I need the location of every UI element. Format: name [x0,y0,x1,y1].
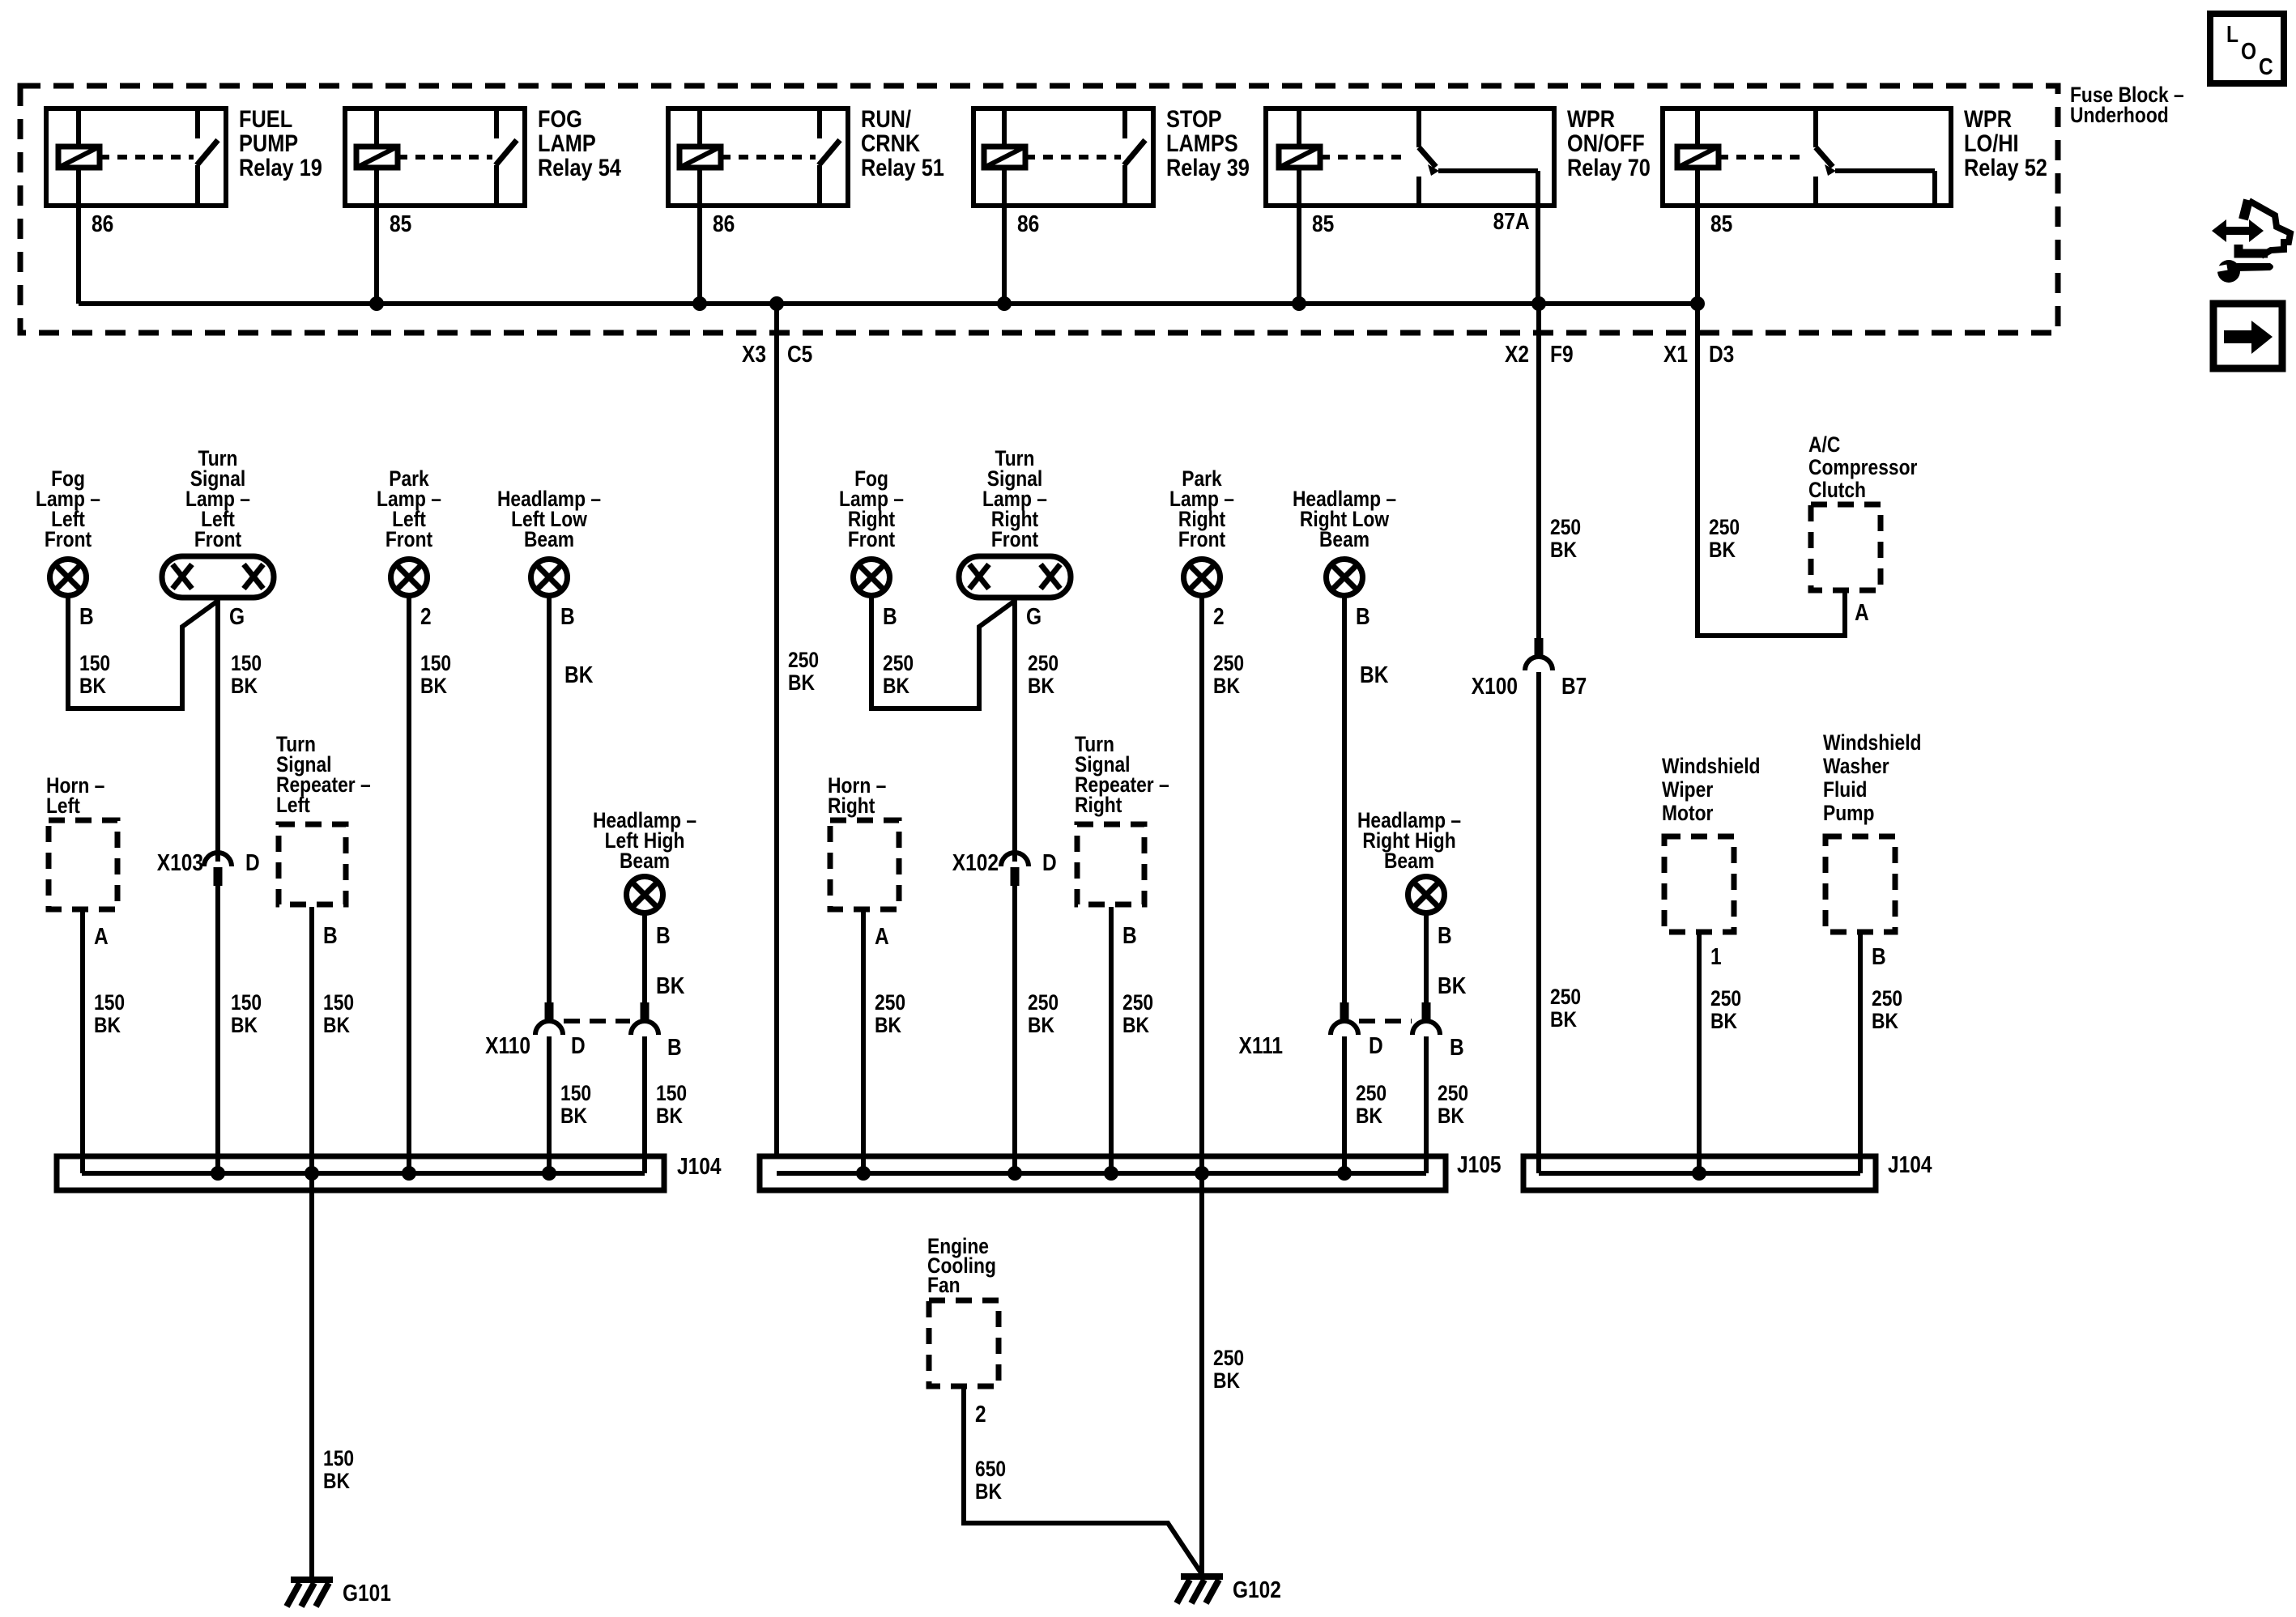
headlamp right high beam bulb [1408,877,1445,913]
wire horn left to J104 [80,912,85,1173]
svg-text:FOG: FOG [538,106,582,133]
svg-text:Motor: Motor [1662,801,1714,825]
svg-text:BK: BK [1550,1007,1577,1032]
svg-text:PUMP: PUMP [239,130,298,157]
svg-text:250: 250 [875,990,905,1015]
wire high beam right down [1424,914,1429,1002]
wire low beam right to J105 [1342,1036,1347,1173]
park lamp left front bulb [391,560,428,596]
label J104 left [677,1154,722,1180]
svg-text:Front: Front [991,527,1038,551]
svg-text:C5: C5 [787,342,812,368]
svg-text:G: G [1026,604,1042,630]
svg-text:RUN/: RUN/ [861,106,912,133]
svg-text:BK: BK [656,1104,683,1128]
pin 1 (wiper motor) [1710,944,1722,970]
connector label X3 C5 [742,342,812,368]
splice X111 labels [1239,1033,1464,1061]
turn signal lamp right front symbol [959,556,1071,598]
svg-text:BK: BK [560,1104,587,1128]
svg-text:Windshield: Windshield [1662,754,1761,778]
pin A (horn left) [94,924,109,950]
svg-text:85: 85 [1312,211,1334,237]
wire label 250 BK (turn signal right) [1028,651,1059,698]
svg-text:BK: BK [323,1013,350,1037]
svg-text:Beam: Beam [1384,849,1434,873]
splice X103 labels [157,850,260,876]
wire label 150 BK (turn signal left) [231,651,262,698]
svg-text:BK: BK [1028,674,1054,698]
svg-text:X1: X1 [1663,342,1688,368]
svg-text:87A: 87A [1493,209,1530,235]
svg-text:ON/OFF: ON/OFF [1567,130,1645,157]
svg-text:250: 250 [1213,651,1244,675]
svg-text:Washer: Washer [1823,754,1889,778]
svg-text:86: 86 [92,211,113,237]
svg-text:G: G [229,604,245,630]
wire label 150 BK (fog left) [79,651,110,698]
svg-text:Front: Front [1178,527,1225,551]
svg-text:BK: BK [883,674,909,698]
arrow icon box [2213,304,2282,368]
relay 19 FUEL PUMP [46,106,322,304]
wire label 250 BK (low beam right) [1356,1081,1387,1128]
svg-text:Pump: Pump [1823,801,1874,825]
headlamp right high beam label [1357,808,1461,873]
svg-text:BK: BK [1872,1009,1898,1033]
svg-text:Right: Right [1075,793,1122,817]
A/C compressor clutch label [1808,432,1918,502]
svg-text:G101: G101 [343,1581,391,1606]
pin B (fog right) [883,604,897,630]
svg-text:B: B [323,923,338,949]
svg-text:86: 86 [713,211,735,237]
svg-text:D: D [1369,1033,1383,1059]
svg-text:BK: BK [79,674,106,698]
splice X111 dashed link [1359,1019,1412,1023]
pin B (low beam right) [1356,604,1370,630]
svg-text:B: B [1450,1035,1464,1061]
splice X110 labels [485,1033,682,1061]
wire label 150 BK (low beam left) [560,1081,591,1128]
svg-text:B: B [79,604,94,630]
fog lamp right front label [839,466,904,551]
svg-text:B: B [883,604,897,630]
J104 left bus [82,1171,645,1176]
svg-text:2: 2 [975,1402,986,1428]
wire X103 to J104 [215,886,220,1173]
svg-text:BK: BK [975,1479,1002,1504]
wire label BK (high beam right) [1438,973,1466,999]
svg-text:LAMP: LAMP [538,130,596,157]
J105 dots [856,1166,1352,1181]
svg-text:O: O [2241,39,2256,65]
svg-text:BK: BK [231,674,258,698]
wire turn signal left G down [215,600,220,862]
pin B (washer pump) [1872,944,1886,970]
svg-text:250: 250 [1213,1346,1244,1370]
svg-text:BK: BK [788,670,815,695]
wire label 650 BK (fan) [975,1457,1006,1504]
svg-text:Wiper: Wiper [1662,777,1714,802]
svg-text:250: 250 [1028,990,1059,1015]
svg-text:A: A [1855,600,1869,626]
svg-text:BK: BK [564,662,593,688]
svg-text:B: B [656,923,671,949]
svg-text:J104: J104 [677,1154,722,1180]
wire label 250 BK (C5) [788,648,819,695]
svg-text:2: 2 [420,604,432,630]
ground G101 [287,1580,391,1606]
svg-text:Beam: Beam [524,527,574,551]
svg-text:B: B [1872,944,1886,970]
wire label 250 BK (wiper) [1710,986,1741,1033]
svg-text:BK: BK [1213,1368,1240,1393]
windshield wiper motor box [1664,836,1734,932]
wire high beam left to J104 [642,1036,647,1173]
wire label 150 BK (park left) [420,651,451,698]
svg-text:85: 85 [390,211,411,237]
svg-text:BK: BK [420,674,447,698]
pin B (repeater left) [323,923,338,949]
wire label 150 BK (repeater left) [323,990,354,1037]
svg-text:BK: BK [323,1469,350,1493]
pin B (fog left) [79,604,94,630]
svg-text:250: 250 [1028,651,1059,675]
pin G (turn signal right) [1026,604,1042,630]
svg-text:250: 250 [1550,515,1581,539]
svg-text:J104: J104 [1888,1152,1932,1178]
turn signal lamp left front label [185,446,250,551]
headlamp left low beam bulb [531,560,568,596]
svg-text:250: 250 [1710,986,1741,1011]
svg-text:250: 250 [1550,985,1581,1009]
svg-text:Front: Front [848,527,895,551]
pin 2 (park right) [1213,604,1225,630]
fuse block label [2070,83,2184,127]
svg-text:150: 150 [231,651,262,675]
svg-text:150: 150 [420,651,451,675]
svg-text:J105: J105 [1457,1152,1502,1178]
svg-text:Relay 39: Relay 39 [1166,155,1250,181]
svg-text:X2: X2 [1505,342,1529,368]
horn right box [830,820,899,909]
splice X100 [1525,638,1553,670]
svg-text:Beam: Beam [620,849,670,873]
fuse block underhood dashed box [20,86,2058,333]
pin B (high beam left) [656,923,671,949]
wire fog right to turn signal [871,597,1015,709]
wire label 250 BK (D3) [1709,515,1740,562]
wire low beam left down [547,597,552,1002]
park lamp right front label [1169,466,1234,551]
svg-text:650: 650 [975,1457,1006,1481]
turn signal repeater right box [1077,824,1144,904]
junction block J105 [760,1156,1446,1190]
wire washer pump to J104 [1858,934,1863,1173]
splice X102 [1001,853,1029,886]
svg-text:BK: BK [94,1013,121,1037]
park lamp left front label [377,466,441,551]
svg-text:Underhood: Underhood [2070,103,2169,127]
svg-text:Compressor: Compressor [1808,455,1918,479]
windshield washer fluid pump label [1823,730,1922,825]
svg-text:Clutch: Clutch [1808,478,1866,502]
svg-text:BK: BK [1122,1013,1149,1037]
svg-text:X102: X102 [952,850,999,876]
pin G (turn signal left) [229,604,245,630]
headlamp left low beam label [497,487,601,551]
splice X110 dashed link [564,1019,630,1023]
wire label 250 BK (repeater right) [1122,990,1153,1037]
wire high beam right to J105 [1424,1036,1429,1173]
wire X2/F9 drop [1536,304,1541,639]
svg-text:STOP: STOP [1166,106,1222,133]
relay 39 STOP LAMPS [973,106,1250,304]
svg-text:150: 150 [323,1446,354,1470]
engine cooling fan label [927,1234,996,1297]
junction block J104 left [57,1156,664,1190]
svg-text:F9: F9 [1550,342,1574,368]
svg-text:Front: Front [386,527,432,551]
svg-text:Left: Left [46,794,80,818]
svg-text:150: 150 [94,990,125,1015]
splice X111 left half [1331,1002,1358,1035]
junction block J104 right [1523,1156,1876,1190]
relay 70 WPR ON/OFF [1266,106,1651,304]
horn left label [46,773,104,818]
svg-text:L: L [2226,22,2238,48]
engine cooling fan box [929,1300,999,1386]
LOC icon letters [2226,22,2273,80]
svg-text:BK: BK [1356,1104,1382,1128]
svg-text:LAMPS: LAMPS [1166,130,1238,157]
car service icon [2212,200,2290,283]
splice X110 left half [535,1002,563,1035]
svg-text:BK: BK [1710,1009,1737,1033]
windshield washer fluid pump box [1825,836,1895,932]
svg-text:X111: X111 [1239,1033,1284,1059]
svg-text:250: 250 [788,648,819,672]
ground G102 [1177,1577,1281,1603]
svg-text:Fan: Fan [927,1273,961,1297]
wire repeater left to J104 [309,907,314,1173]
wire label 250 BK (high beam right) [1438,1081,1468,1128]
J105 bus [777,1171,1426,1176]
pin 2 (fan) [975,1402,986,1428]
svg-text:FUEL: FUEL [239,106,292,133]
pin B (repeater right) [1122,923,1137,949]
svg-text:A: A [875,924,889,950]
wire label BK (high beam left) [656,973,684,999]
fog lamp left front bulb [50,560,87,596]
svg-text:1: 1 [1710,944,1722,970]
wire X1/D3 drop [1698,304,1845,636]
svg-text:250: 250 [1122,990,1153,1015]
wire park right to J105 and G102 [1199,597,1204,1574]
svg-text:WPR: WPR [1567,106,1615,133]
svg-text:150: 150 [323,990,354,1015]
turn signal repeater right label [1075,732,1169,817]
svg-text:250: 250 [883,651,914,675]
svg-text:BK: BK [1550,538,1577,562]
wire label BK (low beam right) [1360,662,1388,688]
J104 left dots [211,1166,556,1181]
wire label 150 BK (high beam left) [656,1081,687,1128]
relay 51 RUN/CRNK [668,106,944,304]
svg-text:Windshield: Windshield [1823,730,1922,755]
wire wiper motor to J104 [1697,934,1702,1173]
svg-text:Relay 19: Relay 19 [239,155,322,181]
wire X3/C5 drop [774,304,779,1156]
wire label 250 BK (fog right) [883,651,914,698]
svg-text:D3: D3 [1709,342,1734,368]
wire repeater right to J105 [1109,907,1114,1173]
svg-text:BK: BK [1709,538,1736,562]
svg-text:D: D [1042,850,1057,876]
svg-text:Relay 51: Relay 51 [861,155,944,181]
wire label 150 BK (horn left) [94,990,125,1037]
relay 52 WPR LO/HI [1663,106,2047,304]
headlamp right low beam label [1293,487,1396,551]
pin B (high beam right) [1438,923,1452,949]
arrow icon [2224,321,2273,354]
splice X102 labels [952,850,1057,876]
svg-text:BK: BK [231,1013,258,1037]
svg-text:Front: Front [45,527,92,551]
label J104 right [1888,1152,1932,1178]
svg-text:Beam: Beam [1319,527,1370,551]
svg-text:B: B [667,1035,682,1061]
wire label 250 BK (horn right) [875,990,905,1037]
pin B (low beam left) [560,604,575,630]
wire label 250 BK (washer) [1872,986,1902,1033]
svg-text:BK: BK [656,973,684,999]
svg-text:150: 150 [656,1081,687,1105]
fuse block ground bus wire [79,301,1698,306]
pin 2 (park left) [420,604,432,630]
wire park left to J104 [407,597,411,1173]
fog lamp right front bulb [854,560,890,596]
svg-text:BK: BK [1438,973,1466,999]
svg-text:150: 150 [231,990,262,1015]
splice X103 [204,853,232,886]
svg-text:150: 150 [560,1081,591,1105]
svg-text:X3: X3 [742,342,766,368]
headlamp right low beam bulb [1327,560,1363,596]
connector label X2 F9 [1505,342,1574,368]
svg-text:Fluid: Fluid [1823,777,1868,802]
svg-text:X100: X100 [1472,674,1518,700]
wire turn signal right G down [1012,600,1017,862]
svg-text:C: C [2259,54,2273,80]
svg-text:X110: X110 [485,1033,530,1059]
splice X111 right half [1412,1002,1440,1035]
headlamp left high beam label [593,808,696,873]
park lamp right front bulb [1184,560,1220,596]
wire G101 down [309,1173,314,1579]
svg-text:BK: BK [1213,674,1240,698]
svg-text:BK: BK [1438,1104,1464,1128]
wire high beam left down [642,914,647,1002]
turn signal repeater left box [279,824,346,904]
svg-text:250: 250 [1709,515,1740,539]
J104 right dot [1692,1166,1706,1181]
bus junction dots [369,296,1705,311]
wire label 150 BK (X103) [231,990,262,1037]
wire low beam right down [1342,597,1347,1002]
svg-text:150: 150 [79,651,110,675]
wire label 250 BK (park right) [1213,651,1244,698]
svg-text:A/C: A/C [1808,432,1840,457]
svg-text:250: 250 [1872,986,1902,1011]
A/C compressor clutch box [1811,504,1881,590]
svg-text:D: D [245,850,260,876]
wire X102 to J105 [1012,886,1017,1173]
turn signal repeater left label [276,732,371,817]
svg-text:Relay 52: Relay 52 [1964,155,2047,181]
horn left box [49,820,117,909]
splice X110 right half [631,1002,658,1035]
splice X100 labels [1472,674,1587,700]
fog lamp left front label [36,466,100,551]
svg-text:Left: Left [276,793,310,817]
horn right label [828,773,886,818]
svg-text:85: 85 [1710,211,1732,237]
wire low beam left to J104 [547,1036,552,1173]
wire label 150 BK (G101) [323,1446,354,1493]
svg-text:LO/HI: LO/HI [1964,130,2019,157]
wire label 250 BK (F9) [1550,515,1581,562]
svg-text:Front: Front [194,527,241,551]
svg-text:Relay 70: Relay 70 [1567,155,1651,181]
J104 right bus [1539,1171,1860,1176]
pin A (A/C clutch) [1855,600,1869,626]
svg-text:D: D [571,1033,586,1059]
wire label BK (low beam left) [564,662,593,688]
svg-text:G102: G102 [1233,1577,1281,1603]
turn signal lamp right front label [982,446,1047,551]
svg-text:250: 250 [1438,1081,1468,1105]
svg-text:BK: BK [1360,662,1388,688]
turn signal lamp left front symbol [162,556,274,598]
headlamp left high beam bulb [627,877,663,913]
svg-text:CRNK: CRNK [861,130,920,157]
wire fan to G102 [964,1389,1202,1574]
svg-text:2: 2 [1213,604,1225,630]
windshield wiper motor label [1662,754,1761,825]
svg-text:B: B [1122,923,1137,949]
svg-text:B: B [1438,923,1452,949]
svg-text:BK: BK [1028,1013,1054,1037]
wire fog left to turn signal [68,597,218,709]
svg-text:BK: BK [875,1013,901,1037]
svg-text:B: B [560,604,575,630]
svg-text:Relay 54: Relay 54 [538,155,621,181]
wire X100 to J104 [1536,672,1541,1173]
LOC icon box [2210,14,2284,83]
svg-text:B: B [1356,604,1370,630]
wire label 250 BK (X100) [1550,985,1581,1032]
svg-text:X103: X103 [157,850,203,876]
svg-text:WPR: WPR [1964,106,2012,133]
relay 54 FOG LAMP [345,106,621,304]
svg-text:Right: Right [828,794,875,818]
wire horn right to J105 [861,912,866,1173]
connector label X1 D3 [1663,342,1734,368]
svg-text:250: 250 [1356,1081,1387,1105]
wire label 250 BK (X102) [1028,990,1059,1037]
